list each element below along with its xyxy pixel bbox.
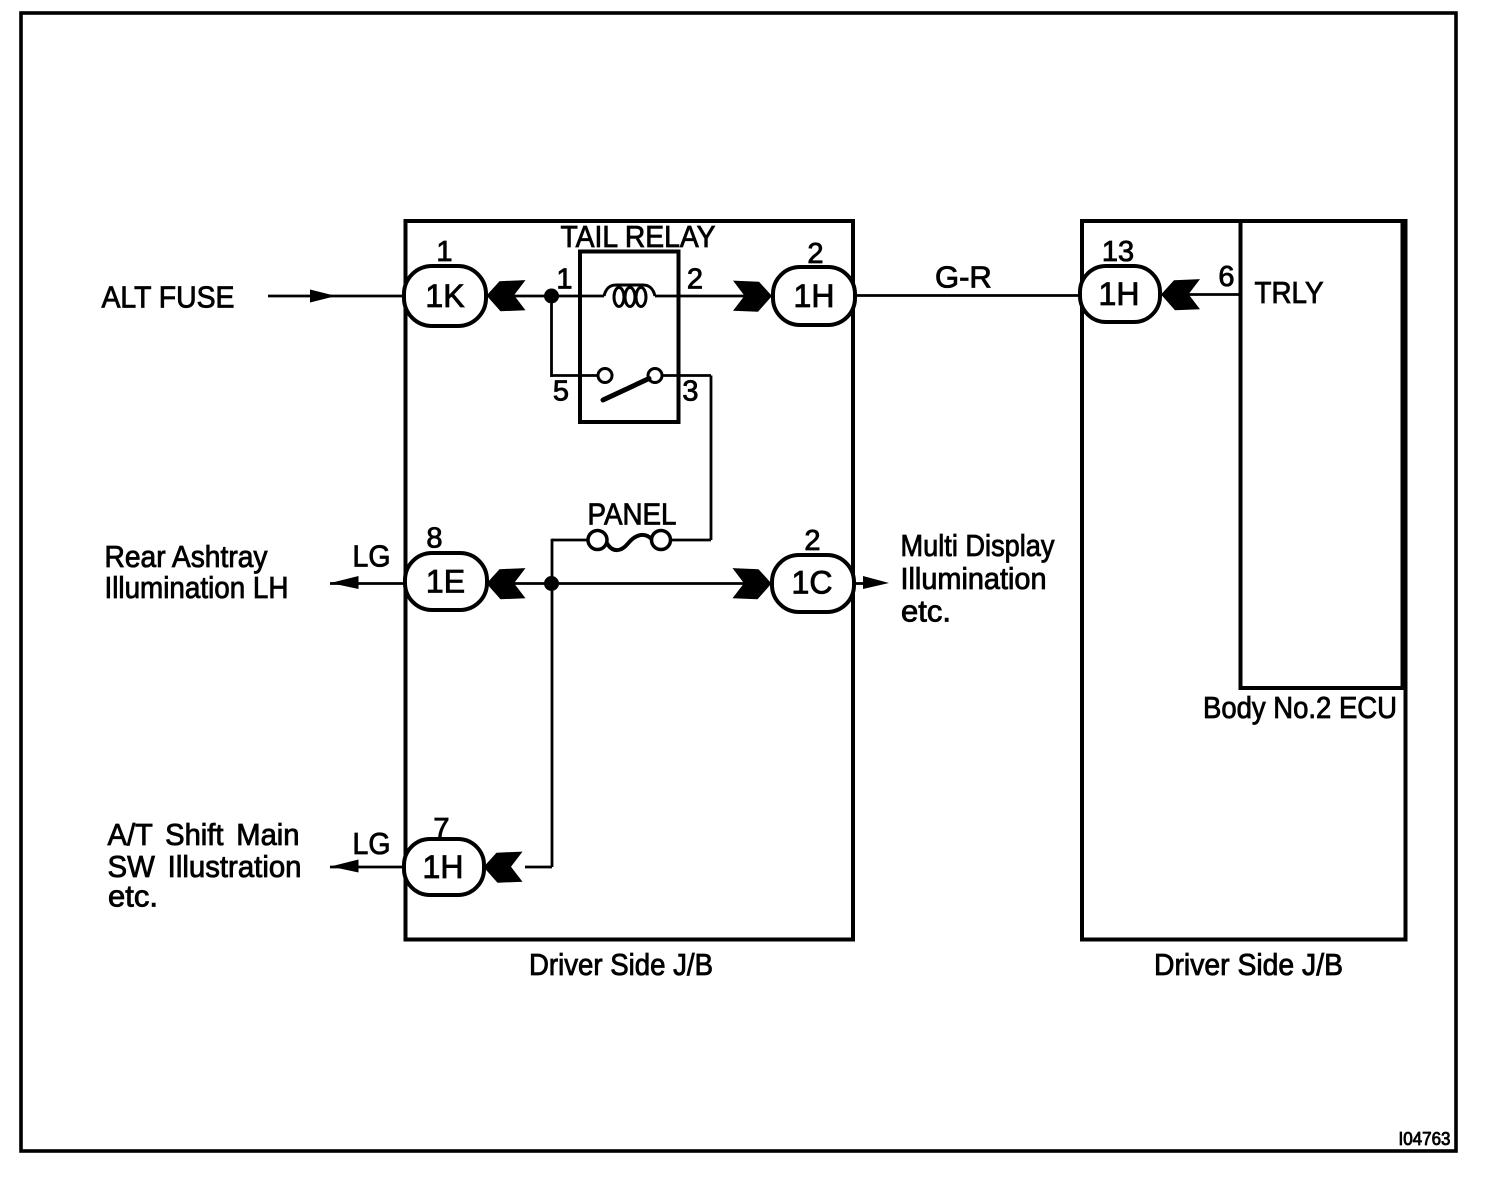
svg-text:5: 5 — [553, 376, 569, 408]
svg-text:6: 6 — [1218, 261, 1234, 293]
svg-text:3: 3 — [682, 376, 698, 408]
svg-text:7: 7 — [433, 813, 449, 845]
svg-text:TAIL RELAY: TAIL RELAY — [561, 219, 716, 254]
svg-text:1H: 1H — [423, 849, 464, 885]
svg-text:LG: LG — [353, 826, 391, 861]
svg-text:2: 2 — [687, 264, 703, 296]
svg-text:1: 1 — [556, 264, 572, 296]
svg-text:13: 13 — [1102, 236, 1134, 268]
svg-text:8: 8 — [426, 523, 442, 555]
svg-text:1C: 1C — [792, 565, 833, 601]
svg-text:2: 2 — [807, 238, 823, 270]
svg-text:PANEL: PANEL — [588, 497, 677, 532]
svg-text:LG: LG — [353, 539, 391, 574]
svg-text:1H: 1H — [1099, 276, 1140, 312]
svg-text:1E: 1E — [426, 564, 465, 600]
svg-text:I04763: I04763 — [1399, 1129, 1451, 1149]
svg-text:Illumination: Illumination — [901, 561, 1047, 596]
svg-text:Rear Ashtray: Rear Ashtray — [105, 539, 268, 574]
svg-text:G-R: G-R — [935, 260, 992, 295]
svg-text:Body No.2 ECU: Body No.2 ECU — [1203, 690, 1397, 725]
svg-text:A/T Shift Main: A/T Shift Main — [108, 817, 300, 852]
svg-text:ALT FUSE: ALT FUSE — [102, 280, 235, 315]
svg-text:Multi Display: Multi Display — [901, 528, 1055, 563]
svg-text:TRLY: TRLY — [1255, 275, 1324, 310]
svg-text:1K: 1K — [425, 278, 464, 314]
svg-text:etc.: etc. — [108, 879, 158, 914]
svg-text:1H: 1H — [794, 278, 835, 314]
svg-text:Illumination LH: Illumination LH — [105, 570, 289, 605]
svg-text:Driver Side J/B: Driver Side J/B — [529, 947, 713, 982]
svg-text:etc.: etc. — [901, 594, 951, 629]
svg-text:1: 1 — [436, 236, 452, 268]
svg-text:Driver Side J/B: Driver Side J/B — [1154, 947, 1343, 982]
svg-text:2: 2 — [804, 525, 820, 557]
